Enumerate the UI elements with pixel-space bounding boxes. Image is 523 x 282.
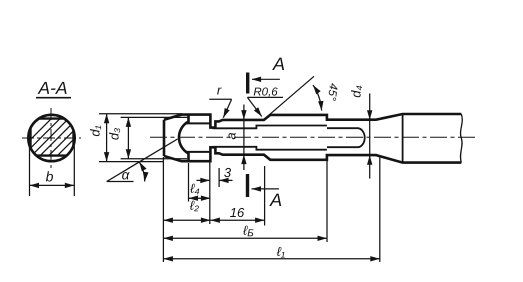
R0,6 leader arrow [254,107,264,118]
leader 45 deg (chamfer extension) [267,76,315,117]
r leader arrow [221,108,230,119]
alpha arc arrows [137,161,147,172]
dimension l_b [163,237,327,239]
svg-text:А-А: А-А [37,78,67,98]
dimension 3 [197,179,210,181]
dimension d1 [99,113,182,115]
svg-text:ℓ₁: ℓ₁ [277,244,285,259]
svg-text:r: r [217,82,222,97]
l4 arrows [189,196,199,201]
dimension a (vertical through section plane) [243,105,245,171]
section flats (chords) [39,117,64,119]
svg-text:b: b [46,168,54,184]
neck lines behind tang flat [186,122,211,124]
l2 arrows [163,218,173,223]
svg-text:А: А [269,190,282,210]
dimension 16 [210,219,264,221]
dimension l4 [189,197,211,199]
l_b arrows [163,236,173,241]
16 arrows [210,218,220,223]
l1 arrows [163,256,173,261]
svg-text:d₁: d₁ [88,125,103,136]
svg-text:3: 3 [224,165,232,180]
b arrows [30,183,40,188]
svg-text:α: α [122,167,131,182]
leader r [209,98,231,100]
section cut mark A (bottom) [246,174,249,197]
angle alpha [107,181,134,183]
dimension d3 [121,116,189,118]
d4 arrows [367,110,372,120]
section centerlines [50,108,52,169]
dimension l1 [163,258,379,260]
svg-text:ℓ₄: ℓ₄ [190,181,199,196]
milled flat slot with rounded end [327,128,365,147]
tang dome (spherical end of round portion) [179,115,189,162]
svg-text:R0,6: R0,6 [253,86,278,98]
break line at right end [460,114,462,163]
leader R0,6 [247,96,283,98]
section cut mark A (top) [246,73,249,94]
dimension l2 [163,219,210,221]
extension lines below shaft [162,157,164,262]
tang left edge [163,120,166,156]
45 deg arc [313,85,322,111]
shaft outline: bottom profile [164,147,461,162]
shaft outline: top profile [164,114,461,128]
square-flat side edges (bottom) [213,147,327,150]
square-flat side edges (top) [213,126,327,129]
svg-text:d₃: d₃ [106,128,121,140]
section circle [28,115,74,161]
svg-text:ℓ₂: ℓ₂ [190,198,199,213]
section view arrows [252,77,262,82]
section hatching [18,110,94,186]
45deg arc arrows [311,83,321,94]
main centerline [150,136,477,138]
svg-text:d₄: d₄ [349,85,364,97]
dimension d4 [369,94,371,179]
svg-text:а: а [224,132,239,139]
d1 arrows [104,114,109,124]
cone-cylinder boundary [402,114,404,163]
d3 arrows [126,117,131,127]
dimension b [29,146,31,196]
3 arrows [200,178,210,183]
svg-text:45°: 45° [325,83,339,102]
a arrows [241,110,246,120]
svg-text:А: А [272,54,285,74]
svg-text:16: 16 [230,205,245,220]
